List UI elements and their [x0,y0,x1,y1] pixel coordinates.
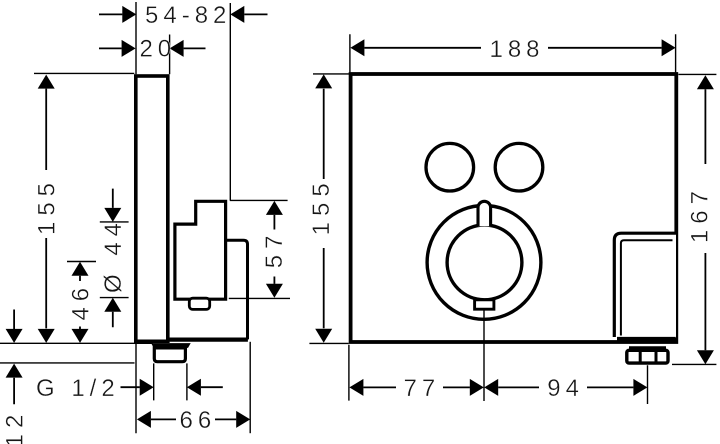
dim 20: extension line right (plate back face) [169,35,171,75]
front view: shelf box inner contour [621,240,673,335]
dim 77/94: extension lines [349,310,648,404]
front view: face plate [351,74,677,342]
front view: knob top marker tab [478,201,491,226]
front view: knob bottom marker tab [475,300,494,309]
svg-text:77: 77 [404,375,441,402]
svg-text:155: 155 [34,177,61,235]
dim 46: tick at knob centre [67,261,96,263]
dim 155 left: dimension line and arrows [45,89,47,329]
front view: thermostat knob inner circle [447,225,522,300]
svg-text:155: 155 [308,177,335,235]
dim 155 left: top tick [34,72,134,74]
dim 66: arrows and shafts [151,418,236,420]
dim 54-82: extension line right (button front face) [229,3,231,200]
side view: wall plate [136,76,168,341]
dim diameter 44: dimension line and arrows [112,189,114,328]
svg-text:G 1/2: G 1/2 [36,375,120,402]
front view: shelf box outline [614,233,676,337]
side view: small pill detail at knob bottom [189,298,209,309]
front view: shelf box bottom bar [617,337,676,342]
side view: outlet flange below plate [151,343,191,348]
dim 12: arrows and shafts [13,310,15,405]
dim 12: lower reference line [0,362,135,364]
svg-text:66: 66 [180,407,217,434]
svg-text:54-82: 54-82 [145,2,231,29]
dim 94: arrows and shafts [484,379,498,396]
front view: right select button [495,143,543,191]
dim G1/2: extension lines [154,363,187,400]
dim 54-82: extension line left (plate front face) [135,2,137,433]
dim 57: dimension line and arrows [273,215,275,284]
front view: thermostat knob outer ring [427,206,541,320]
dim 57: ticks [229,200,290,298]
svg-text:167: 167 [687,185,714,243]
svg-text:12: 12 [1,409,28,444]
side view: base sleeve behind knob [226,240,248,339]
front view: hex nut facets [640,352,656,362]
front view: outlet collar under shelf [629,346,666,350]
svg-text:Ø 44: Ø 44 [100,217,127,293]
side view: handle knob + button silhouette [175,201,226,299]
dim 155 left: bottom reference line [0,342,153,344]
dim 167: ticks [672,74,716,364]
dim 167: dimension line and arrows [704,89,706,350]
dim 54-82: arrows and shafts [99,13,122,15]
dim diameter 44: ticks [100,222,129,298]
front view: left select button [426,143,474,191]
dim 20: arrows and shafts [99,47,122,49]
dim 46: dimension line and arrows [79,276,81,329]
front view: hex nut [627,350,668,363]
side view: bottom edge bar of handle base [168,338,248,342]
dim G1/2: arrows and shafts [121,386,140,388]
dim 66: extension line right [249,342,251,433]
dim 77: arrows and shafts [363,386,396,388]
dim 188: extension lines [350,34,676,72]
svg-text:46: 46 [67,282,94,321]
svg-text:188: 188 [489,36,544,63]
front view: shelf box fill [614,233,676,338]
svg-text:57: 57 [261,230,288,269]
svg-text:20: 20 [139,36,176,63]
dim 155 front: ticks [309,74,349,344]
svg-text:94: 94 [547,375,584,402]
dim 155 front: dimension line and arrows [323,89,325,329]
dim 188: arrows and shafts [364,47,481,49]
side view: G1/2 thread collar [154,348,185,362]
